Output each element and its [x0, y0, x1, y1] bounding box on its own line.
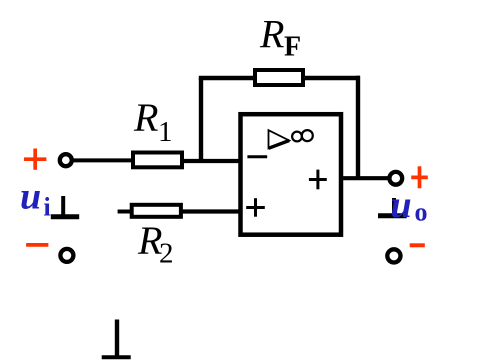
svg-text:o: o [415, 198, 428, 227]
terminal input minus circle [60, 249, 73, 262]
output minus polarity mark [410, 243, 425, 247]
op-amp inverting input minus sign [247, 155, 267, 158]
op-amp infinity gain symbol [292, 130, 313, 141]
input plus polarity mark [24, 149, 46, 170]
wire feedback top left [199, 76, 256, 80]
terminal output plus circle [389, 172, 402, 185]
output reference tick [378, 198, 407, 216]
svg-text:u: u [20, 176, 41, 218]
input minus polarity mark [26, 243, 48, 247]
resistor R2 [132, 205, 181, 217]
label R2 [137, 218, 174, 270]
output plus polarity mark [411, 166, 428, 188]
svg-text:R: R [259, 12, 284, 57]
wire op-amp output [341, 176, 390, 180]
ground [102, 320, 131, 358]
terminal input plus circle [60, 154, 72, 166]
svg-text:1: 1 [158, 116, 173, 148]
wire feedback top right [303, 76, 360, 80]
label uo [391, 184, 428, 227]
svg-text:i: i [44, 193, 51, 222]
wire feedback right vertical [356, 76, 360, 178]
wire feedback tap vertical [199, 78, 203, 163]
op-amp U1 body [241, 114, 342, 235]
op-amp output plus sign [309, 170, 327, 190]
label R1 [133, 95, 173, 148]
svg-text:u: u [391, 184, 412, 226]
svg-text:2: 2 [159, 238, 174, 270]
label RF [259, 12, 301, 63]
label ui [20, 176, 51, 222]
wire input to R1 [72, 158, 134, 162]
op-amp triangle symbol [269, 130, 290, 148]
wire R1 to op-amp inverting input [182, 159, 242, 163]
terminal output minus circle [387, 249, 400, 262]
wire R2 left stub [118, 210, 133, 214]
resistor R1 [133, 153, 182, 168]
input reference tick [51, 196, 79, 217]
op-amp noninverting input plus sign [246, 198, 265, 217]
wire R2 to op-amp noninverting input [181, 209, 242, 213]
svg-text:F: F [284, 32, 301, 63]
svg-text:R: R [133, 95, 158, 140]
resistor RF [255, 70, 303, 85]
